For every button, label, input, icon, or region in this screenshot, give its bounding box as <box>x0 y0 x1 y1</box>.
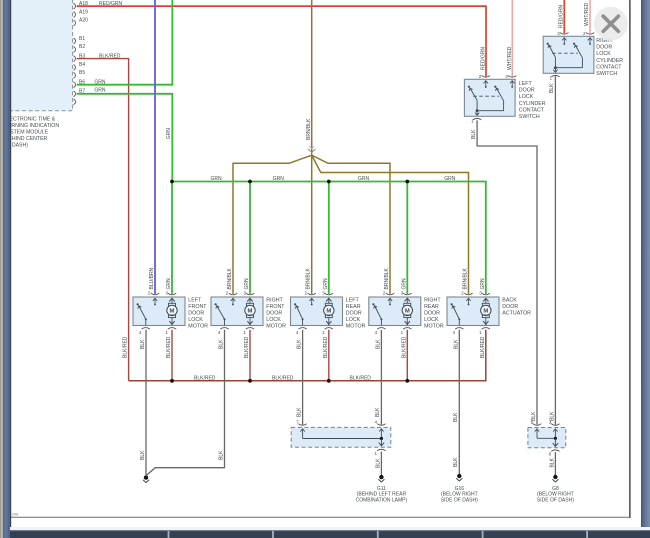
svg-text:B2: B2 <box>79 44 85 50</box>
svg-text:B5: B5 <box>79 70 85 76</box>
motor 2 pin 1 connector <box>243 328 254 336</box>
motor 3 pin 3 connector <box>322 290 333 295</box>
svg-text:RED/GRN: RED/GRN <box>480 47 486 70</box>
svg-text:GRN: GRN <box>166 278 172 290</box>
label BRN/BLK at motor 4 pin 2 <box>384 267 390 289</box>
svg-text:CONTACT: CONTACT <box>519 107 545 113</box>
svg-text:BRN/BLK: BRN/BLK <box>463 267 469 289</box>
switch blade 1 <box>547 43 556 58</box>
svg-text:BRN/BLK: BRN/BLK <box>306 118 312 140</box>
motor 4 label text <box>424 298 444 330</box>
label BRN/BLK at motor 5 pin 2 <box>463 267 469 289</box>
module pin B6 <box>74 80 86 88</box>
label BLK/RED at motor 5 pin 1 <box>480 336 486 358</box>
svg-text:BLK: BLK <box>219 339 225 349</box>
svg-text:REAR: REAR <box>346 304 361 310</box>
svg-text:FRONT: FRONT <box>188 304 207 310</box>
module label text <box>3 116 59 148</box>
switch label text <box>596 38 623 77</box>
svg-text:BLK: BLK <box>453 457 459 467</box>
label BLK/RED at motor 3 pin 1 <box>323 336 329 358</box>
pin top-left connector <box>557 31 568 36</box>
motor 4 pin 1 connector <box>401 328 412 336</box>
svg-text:BLK/RED: BLK/RED <box>123 336 129 358</box>
motor 5 pin 4 connector <box>453 328 464 336</box>
svg-text:A20: A20 <box>79 18 88 24</box>
svg-text:BRN/BLK: BRN/BLK <box>227 267 233 289</box>
svg-text:BLK: BLK <box>140 450 146 460</box>
motor M2: right front door lock motor <box>211 297 263 326</box>
label ground G11 <box>356 486 408 504</box>
svg-text:B4: B4 <box>79 62 85 68</box>
node BLK/RED bus junction 4 <box>405 379 409 383</box>
right window band <box>641 0 650 538</box>
svg-text:GRN: GRN <box>244 278 250 290</box>
svg-text:RIGHT: RIGHT <box>424 298 441 304</box>
wire BLK from G11 pin 1 to ground G11 <box>375 452 381 475</box>
svg-text:5: 5 <box>531 420 534 425</box>
svg-text:4: 4 <box>549 420 552 425</box>
svg-text:MOTOR: MOTOR <box>188 323 208 329</box>
motor 4 pin 4 connector <box>375 328 386 336</box>
wire BLK/RED from motor 4 pin 1 to bus <box>406 330 408 381</box>
label BLK at motor 4 pin 4 <box>375 339 381 349</box>
wire GRN distribution bus <box>172 176 486 294</box>
svg-text:GRN: GRN <box>94 88 106 94</box>
page bottom border <box>11 512 631 518</box>
label GRN at motor 5 pin 3 <box>480 278 486 290</box>
svg-text:RED/GRN: RED/GRN <box>558 5 564 28</box>
svg-text:GRN: GRN <box>211 176 223 182</box>
svg-text:DOOR: DOOR <box>424 311 440 317</box>
svg-text:CYLINDER: CYLINDER <box>596 58 623 64</box>
ground G16 <box>456 473 462 481</box>
svg-text:MOTOR: MOTOR <box>346 323 366 329</box>
splice S (BRN/BLK fan-out) <box>308 146 316 152</box>
svg-text:M: M <box>326 309 331 315</box>
module pin A18 <box>74 1 89 9</box>
wire BLK/RED ground bus <box>129 330 486 382</box>
svg-text:M: M <box>405 309 410 315</box>
terminal arrow below left pin <box>484 81 488 88</box>
mechanical link (dashed) <box>473 95 499 97</box>
svg-text:GRN: GRN <box>323 278 329 290</box>
module: electronic time & warning indication system module <box>0 0 73 111</box>
svg-text:DOOR: DOOR <box>346 311 362 317</box>
svg-text:LOCK: LOCK <box>266 317 281 323</box>
ground G11 <box>378 474 384 482</box>
svg-text:FRONT: FRONT <box>266 304 285 310</box>
wire BLK from motor 5 pin 4 to ground G16 <box>453 330 459 474</box>
wire BLK from left switch pin 1 to G8 connector pin 5 <box>471 120 537 425</box>
pin 1 exit connector <box>549 67 559 80</box>
node GRN bus junction 2 <box>248 180 252 184</box>
mechanical link (dashed) <box>552 52 578 54</box>
module pin B2 <box>74 44 86 52</box>
module pin B1 <box>74 36 86 44</box>
label BLU/BRN at motor 1 pin 2 <box>149 267 155 289</box>
svg-text:BLK/RED: BLK/RED <box>244 336 250 358</box>
svg-text:LEFT: LEFT <box>188 298 202 304</box>
motor symbol U2 <box>245 298 255 325</box>
label BLK at motor 3 pin 4 <box>297 339 303 349</box>
svg-text:DOOR: DOOR <box>266 311 282 317</box>
motor symbol U4 <box>402 298 412 325</box>
node BLK/RED bus junction 1 <box>170 379 174 383</box>
svg-text:GRN: GRN <box>401 278 407 290</box>
svg-text:MOTOR: MOTOR <box>266 323 286 329</box>
wire BRN/BLK branch to right front door lock motor pin 2 <box>233 155 312 294</box>
svg-text:BLK/RED: BLK/RED <box>323 336 329 358</box>
page right border <box>629 0 631 518</box>
label GRN at motor 1 pin 3 <box>166 278 172 290</box>
wire RED/GRN from module pin A18 to left door lock cylinder contact switch pin 2 <box>77 1 486 77</box>
wire RED/GRN to right door lock cylinder contact switch pin 3 <box>558 0 564 33</box>
terminal arrow below right pin <box>588 38 592 45</box>
motor 5 pin 1 connector <box>479 328 490 336</box>
motor 1 pin 3 connector <box>165 290 176 295</box>
ground G8 <box>552 474 558 482</box>
switch inside motor 2 <box>215 303 226 325</box>
motor 2 label text <box>266 298 286 330</box>
G11 pin 7 entry <box>296 420 307 439</box>
label GRN at motor 4 pin 3 <box>401 278 407 290</box>
pin top-right connector <box>583 31 594 36</box>
G11 internal tie <box>303 437 383 440</box>
svg-text:RED/GRN: RED/GRN <box>99 1 122 7</box>
wire BLK from motor 4 pin 4 to G11 connector pin 4 <box>375 330 381 425</box>
ground (motors 1-2) <box>143 475 149 483</box>
label BLK at motor 5 pin 4 <box>453 339 459 349</box>
svg-text:CONTACT: CONTACT <box>596 64 622 70</box>
node GRN bus junction 3 <box>327 180 331 184</box>
node GRN bus junction 4 <box>405 180 409 184</box>
svg-text:LOCK: LOCK <box>188 317 203 323</box>
svg-text:BLK: BLK <box>453 339 459 349</box>
switch output rail <box>476 100 504 112</box>
svg-text:BLK/RED: BLK/RED <box>480 336 486 358</box>
svg-text:BLK: BLK <box>549 457 555 467</box>
G11 pin 1 exit <box>375 439 386 457</box>
module pin A19 <box>74 9 89 17</box>
motor 3 label text <box>346 298 366 330</box>
svg-text:LOCK: LOCK <box>596 51 611 57</box>
wire BLK/RED from module pin B3 down to ground bus <box>77 53 129 380</box>
svg-text:GRN: GRN <box>94 79 106 85</box>
motor 3 pin 1 connector <box>322 328 333 336</box>
svg-text:BLK: BLK <box>297 339 303 349</box>
motor 1 pin 4 connector <box>139 328 150 336</box>
svg-text:WHT/RED: WHT/RED <box>584 2 590 26</box>
motor 2 pin 4 connector <box>218 328 229 336</box>
label BLK at motor 2 pin 4 <box>219 339 225 349</box>
svg-text:SIDE OF DASH): SIDE OF DASH) <box>441 497 478 503</box>
motor 3 pin 4 connector <box>296 328 307 336</box>
motor 5 pin 3 connector <box>479 290 490 295</box>
svg-text:LEFT: LEFT <box>346 298 360 304</box>
terminal arrow below left pin <box>562 38 566 45</box>
svg-text:COMBINATION LAMP): COMBINATION LAMP) <box>356 497 408 503</box>
close button <box>594 7 628 41</box>
svg-text:BRN/BLK: BRN/BLK <box>306 267 312 289</box>
node BLK/RED bus junction 3 <box>327 379 331 383</box>
motor 3 pin 2 connector <box>304 290 315 305</box>
svg-text:M: M <box>170 309 175 315</box>
svg-text:7: 7 <box>296 420 299 425</box>
pin top-left connector <box>479 74 490 79</box>
switch: left door lock cylinder contact switch <box>464 79 515 116</box>
motor symbol U3 <box>324 298 334 325</box>
wire BLK from G8 pin 8 to ground G8 <box>549 452 555 475</box>
svg-text:WARNING INDICATION: WARNING INDICATION <box>3 123 59 129</box>
G8 pin 4 entry <box>549 420 560 439</box>
svg-text:BLK: BLK <box>549 83 555 93</box>
G8 pin 8 exit <box>549 438 560 456</box>
svg-text:A19: A19 <box>79 9 88 15</box>
svg-text:DOOR: DOOR <box>519 88 535 94</box>
wire BLK/RED from motor 1 pin 1 to bus <box>171 330 173 381</box>
connector C (G8 joint) <box>528 428 566 448</box>
G8 internal tie <box>537 437 557 440</box>
switch inside motor 1 <box>137 303 147 325</box>
svg-text:SWITCH: SWITCH <box>519 114 540 120</box>
wire BRN/BLK branch to back door actuator pin 2 <box>312 155 469 294</box>
svg-text:DOOR: DOOR <box>188 311 204 317</box>
svg-text:BLU/BRN: BLU/BRN <box>149 267 155 289</box>
wire WHT/RED to right door lock cylinder contact switch pin 2 <box>584 0 590 33</box>
wire GRN drop to motor 1 pin 3 <box>171 182 173 295</box>
svg-text:M: M <box>483 309 488 315</box>
label BLK/RED at motor 4 pin 1 <box>401 336 407 358</box>
svg-text:LOCK: LOCK <box>519 94 534 100</box>
motor 2 pin 3 connector <box>243 290 254 295</box>
svg-text:CYLINDER: CYLINDER <box>519 101 546 107</box>
module pin B3 <box>74 53 86 61</box>
node BLK/RED bus junction 2 <box>248 379 252 383</box>
label ground G16 <box>441 486 478 504</box>
switch blade 1 <box>468 86 477 101</box>
svg-text:BLK: BLK <box>296 407 302 417</box>
switch output rail <box>554 57 583 69</box>
wire BLK/RED from motor 2 pin 1 to bus <box>249 330 251 381</box>
motor M1: left front door lock motor <box>133 297 185 326</box>
left window band <box>0 0 11 538</box>
svg-text:SIDE OF DASH): SIDE OF DASH) <box>537 497 574 503</box>
motor 4 pin 2 connector <box>383 290 394 305</box>
wire BLK from right switch pin 1 to G8 connector pin 4 <box>549 76 555 425</box>
wire BLK/RED from motor 3 pin 1 to bus <box>328 330 330 381</box>
svg-text:BLK: BLK <box>471 129 477 139</box>
label RED/GRN at left switch pin 2 <box>480 47 486 70</box>
svg-text:GRN: GRN <box>273 176 285 182</box>
svg-text:BLK/RED: BLK/RED <box>166 336 172 358</box>
svg-text:BLK/RED: BLK/RED <box>272 375 294 381</box>
label BLK/RED at motor 1 pin 1 <box>166 336 172 358</box>
svg-text:GRN: GRN <box>480 278 486 290</box>
connector C (G11 joint) <box>291 427 391 447</box>
svg-text:BLK: BLK <box>218 450 224 460</box>
svg-text:BLK: BLK <box>453 412 459 422</box>
motor 1 pin 1 connector <box>165 328 176 336</box>
switch inside motor 5 <box>451 303 461 325</box>
motor M4: right rear door lock motor <box>369 297 421 326</box>
pin top-right connector <box>505 74 516 79</box>
switch blade 2 <box>573 43 582 58</box>
label BRN/BLK at motor 2 pin 2 <box>227 267 233 289</box>
module pin A20 <box>74 18 89 26</box>
motor symbol U5 <box>481 298 491 325</box>
module pin B7 <box>74 89 86 97</box>
svg-text:BLK/RED: BLK/RED <box>194 375 216 381</box>
svg-text:GRN: GRN <box>166 128 172 140</box>
label ground G8 <box>537 486 574 504</box>
svg-text:BACK: BACK <box>502 298 517 304</box>
label BLK at motor 1 pin 4 <box>140 339 146 349</box>
terminal arrow below right pin <box>510 81 514 88</box>
wire GRN drop to motor 2 pin 3 <box>249 182 251 295</box>
wire BLK from motor 1 pin 4 to body ground <box>140 330 146 475</box>
wire BLU/BRN vertical from top to left front door lock motor pin 2 <box>154 0 156 294</box>
svg-text:ACTUATOR: ACTUATOR <box>502 311 531 317</box>
G11 pin 4 entry <box>374 420 385 439</box>
motor 2 pin 2 connector <box>226 290 237 305</box>
svg-text:GRN: GRN <box>444 176 456 182</box>
wire WHT/RED to left door lock cylinder contact switch pin 3 <box>511 0 513 77</box>
motor M5: back door actuator <box>447 297 499 326</box>
motor 5 pin 2 connector <box>461 290 472 305</box>
switch: right door lock cylinder contact switch <box>543 36 594 73</box>
wire GRN from module pin B6 up off page <box>77 0 173 85</box>
svg-text:209: 209 <box>12 512 19 517</box>
motor 1 pin 2 connector <box>148 290 159 305</box>
svg-text:4: 4 <box>374 420 377 425</box>
node GRN bus junction 1 <box>170 180 174 184</box>
switch blade 2 <box>494 86 503 101</box>
svg-text:M: M <box>248 309 253 315</box>
svg-text:B1: B1 <box>79 36 85 42</box>
label BRN/BLK at motor 3 pin 2 <box>306 267 312 289</box>
wire BRN/BLK branch to right rear door lock motor pin 2 <box>312 155 390 294</box>
svg-text:SWITCH: SWITCH <box>596 71 617 77</box>
svg-text:BLK: BLK <box>375 458 381 468</box>
G8 pin 5 entry <box>531 420 541 439</box>
wire GRN drop to motor 4 pin 3 <box>406 182 408 295</box>
motor 5 label text <box>502 298 531 317</box>
switch inside motor 4 <box>372 303 382 325</box>
wire GRN from module pin B7 to green bus <box>77 88 173 182</box>
svg-text:DOOR: DOOR <box>502 304 518 310</box>
bottom window band <box>10 527 650 538</box>
label GRN at motor 3 pin 3 <box>323 278 329 290</box>
switch inside motor 3 <box>294 303 304 325</box>
svg-text:WHT/RED: WHT/RED <box>507 46 513 70</box>
svg-text:LOCK: LOCK <box>424 317 439 323</box>
svg-text:MOTOR: MOTOR <box>424 323 444 329</box>
wire BLK from motor 2 pin 4 to body ground <box>147 330 225 475</box>
wire GRN drop to motor 3 pin 3 <box>328 182 330 295</box>
svg-text:BLK: BLK <box>375 339 381 349</box>
svg-text:BLK/RED: BLK/RED <box>401 336 407 358</box>
svg-text:BLK: BLK <box>140 339 146 349</box>
svg-text:DOOR: DOOR <box>596 45 612 51</box>
switch label text <box>519 81 546 120</box>
wire BRN/BLK vertical from top to splice <box>306 0 312 294</box>
svg-text:BLK/RED: BLK/RED <box>350 375 372 381</box>
svg-text:REAR: REAR <box>424 304 439 310</box>
svg-text:LEFT: LEFT <box>519 81 533 87</box>
label BLK/RED on vertical B3 wire <box>123 336 129 358</box>
label GRN at motor 2 pin 3 <box>244 278 250 290</box>
motor 4 pin 3 connector <box>401 290 412 295</box>
svg-text:BLK/RED: BLK/RED <box>99 53 121 59</box>
wire BLK from motor 3 pin 4 to G11 connector pin 7 <box>296 330 302 425</box>
motor M3: left rear door lock motor <box>291 297 343 326</box>
module pin B4 <box>74 62 86 70</box>
pin 1 exit connector <box>471 110 481 123</box>
label BLK/RED at motor 2 pin 1 <box>244 336 250 358</box>
svg-text:RIGHT: RIGHT <box>266 298 283 304</box>
svg-text:BLK: BLK <box>375 407 381 417</box>
module pin spare <box>74 99 76 105</box>
motor symbol U1 <box>167 298 177 325</box>
motor 1 label text <box>188 298 208 330</box>
svg-text:BRN/BLK: BRN/BLK <box>384 267 390 289</box>
module pin B5 <box>74 70 86 78</box>
svg-text:GRN: GRN <box>358 176 370 182</box>
svg-text:LOCK: LOCK <box>346 317 361 323</box>
label WHT/RED at left switch pin 3 <box>507 46 513 70</box>
